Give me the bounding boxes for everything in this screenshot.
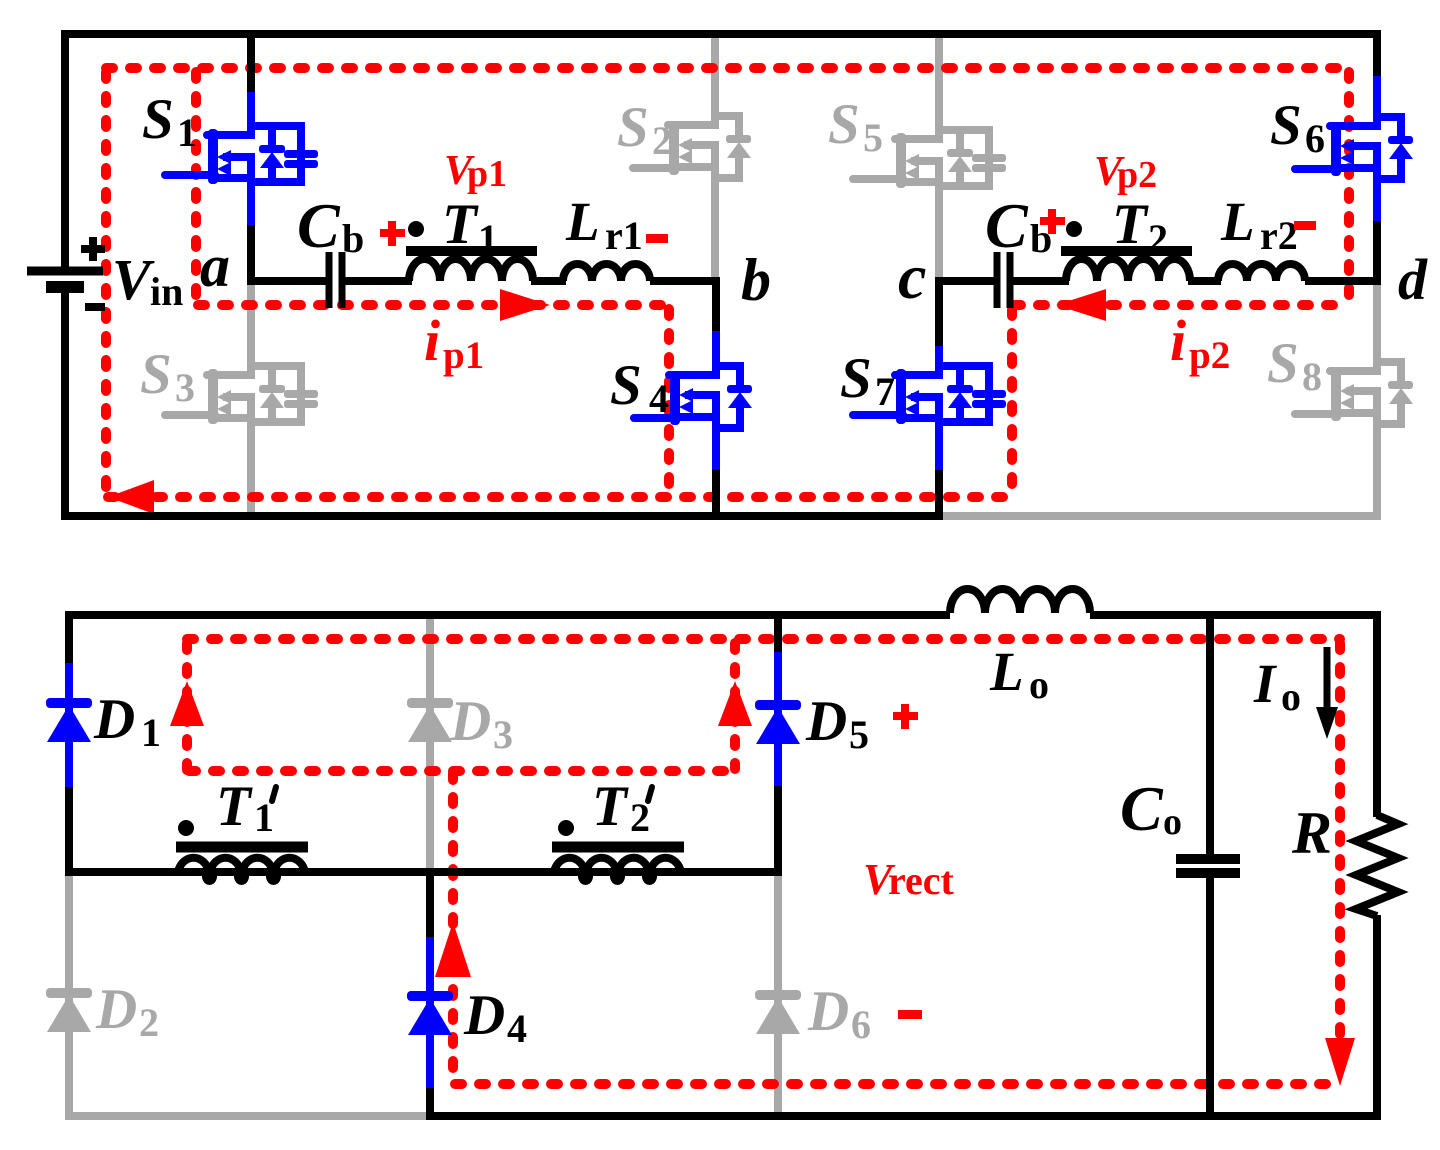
svg-text:S: S bbox=[617, 96, 649, 159]
inductor Lr2 bbox=[1218, 264, 1305, 281]
MOSFET S6 (blue) bbox=[1295, 117, 1413, 179]
svg-text:o: o bbox=[1281, 674, 1301, 719]
wire D5 leg upper (black) bbox=[774, 611, 782, 656]
wire: red dashed vertical below node b bbox=[664, 309, 674, 495]
wire S1 leg top (black) bbox=[247, 30, 255, 96]
wire bottom bus left (gray) bbox=[65, 1112, 434, 1120]
wire: red dashed vertical below S7 bbox=[1007, 309, 1017, 495]
MOSFET S3 (gray) bbox=[165, 366, 318, 424]
diode D6 (gray) bbox=[755, 990, 801, 1034]
svg-text:D: D bbox=[95, 978, 137, 1041]
MOSFET S1 (blue) bbox=[165, 126, 318, 184]
wire S7 leg (blue) bbox=[935, 346, 943, 470]
wire: red dashed right vertical through S6 bbox=[1344, 72, 1354, 301]
battery plus sign bbox=[81, 237, 105, 261]
svg-text:L: L bbox=[1220, 191, 1255, 252]
wire: red dashed ip2 horizontal bbox=[1014, 300, 1349, 310]
diode D4 (blue) bbox=[407, 991, 453, 1035]
wire: red dashed top horizontal (bottom section) bbox=[187, 634, 1340, 644]
transformer T1' polarity dot bbox=[178, 820, 194, 836]
plus sign vp1 bbox=[380, 221, 405, 246]
svg-text:S: S bbox=[828, 93, 860, 156]
wire top bus bbox=[61, 30, 1381, 38]
battery minus sign bbox=[85, 303, 105, 311]
wire D4 leg lower (black) bbox=[426, 1085, 434, 1120]
svg-text:1: 1 bbox=[478, 216, 498, 261]
capacitor Co plates bbox=[1176, 859, 1240, 873]
wire Cb1 to T1 bbox=[343, 277, 412, 285]
wire: red dashed top horizontal (top section) bbox=[106, 63, 1349, 73]
wire S4 leg (blue) bbox=[712, 331, 720, 469]
wire bottom bus left (black) bbox=[61, 512, 943, 520]
wire: red dashed bottom horizontal (top section) bbox=[108, 492, 1012, 502]
wire Lr1 to node b bbox=[650, 277, 720, 285]
wire D4 leg (blue) bbox=[426, 937, 434, 1088]
wire node c to Cb2 bbox=[935, 277, 994, 285]
wire right edge below R bbox=[1373, 915, 1381, 1120]
svg-text:D: D bbox=[449, 690, 491, 753]
arrow: up arrow through D1 path bbox=[170, 681, 204, 726]
wire bottom bus right (black) bbox=[426, 1112, 1381, 1120]
wire S4 source to bottom bus bbox=[712, 466, 720, 520]
wire D1 leg (blue) bbox=[65, 663, 73, 787]
battery Vin bottom plate bbox=[46, 281, 84, 293]
wire Co leg lower bbox=[1206, 878, 1214, 1120]
svg-text:C: C bbox=[1120, 773, 1164, 844]
svg-text:p2: p2 bbox=[1117, 154, 1157, 196]
wire: red dashed vertical through S1 bbox=[191, 72, 201, 303]
svg-text:T: T bbox=[1112, 193, 1149, 256]
wire T2 to Lr2 bbox=[1188, 277, 1221, 285]
wire node a to Cb1 bbox=[247, 277, 326, 285]
MOSFET S7 (blue) bbox=[853, 366, 1006, 424]
svg-text:rect: rect bbox=[888, 858, 955, 903]
wire bottom bus right (gray) bbox=[939, 512, 1381, 520]
svg-text:D: D bbox=[463, 984, 505, 1047]
MOSFET S2 (gray) bbox=[633, 116, 751, 178]
transformer T1' core bar bbox=[176, 842, 308, 853]
svg-text:C: C bbox=[985, 190, 1029, 261]
svg-text:5: 5 bbox=[863, 115, 883, 160]
wire Cb2 to T2 bbox=[1011, 277, 1069, 285]
svg-text:6: 6 bbox=[851, 1002, 871, 1047]
transformer T1 polarity dot bbox=[408, 221, 424, 237]
svg-text:S: S bbox=[140, 343, 172, 406]
svg-text:S: S bbox=[610, 354, 642, 417]
wire D2 leg (gray) bbox=[65, 868, 73, 1116]
transformer T2 core bar bbox=[1061, 246, 1192, 256]
MOSFET S8 (gray) bbox=[1295, 362, 1413, 424]
wire S7 source to bottom bus bbox=[935, 467, 943, 520]
svg-text:4: 4 bbox=[507, 1006, 527, 1051]
svg-text:c: c bbox=[898, 241, 926, 312]
arrow: return current arrow (left, bottom of top section) bbox=[108, 480, 154, 514]
wire: red dashed mid horizontal (bottom section) bbox=[189, 766, 735, 776]
svg-text:S: S bbox=[142, 88, 174, 151]
minus sign vp1 bbox=[646, 234, 668, 243]
wire S2 leg (gray, top bus to node b) bbox=[711, 34, 719, 279]
svg-text:S: S bbox=[1267, 332, 1299, 395]
svg-text:5: 5 bbox=[849, 712, 869, 757]
capacitor Cb1 plates bbox=[329, 252, 342, 308]
svg-text:2: 2 bbox=[1148, 216, 1168, 261]
wire bottom-section top bus left of Lo bbox=[65, 611, 950, 619]
transformer T1 core bar bbox=[406, 246, 537, 256]
svg-text:p1: p1 bbox=[467, 153, 507, 195]
svg-text:T: T bbox=[592, 775, 629, 838]
svg-text:4: 4 bbox=[649, 376, 669, 421]
svg-text:i: i bbox=[424, 308, 440, 373]
capacitor Cb2 plates bbox=[997, 252, 1010, 308]
svg-text:r1: r1 bbox=[605, 213, 643, 258]
wire: red dashed vertical above D1 bbox=[182, 643, 192, 771]
svg-text:S: S bbox=[1270, 94, 1302, 157]
inductor Lo bbox=[950, 589, 1090, 613]
wire: red dashed vertical above D5 bbox=[730, 643, 740, 769]
minus sign vp2 bbox=[1294, 221, 1316, 230]
plus sign Vrect bbox=[893, 704, 918, 729]
svg-text:d: d bbox=[1398, 247, 1428, 312]
plus sign vp2 bbox=[1040, 209, 1065, 234]
svg-text:L: L bbox=[989, 641, 1024, 702]
diode D3 (gray) bbox=[407, 698, 453, 742]
wire left edge above D1 bbox=[65, 611, 73, 667]
diode D2 (gray) bbox=[46, 988, 92, 1032]
wire left edge above battery bbox=[61, 30, 69, 267]
wire D4 leg upper (black) bbox=[426, 868, 434, 941]
svg-text:L: L bbox=[565, 191, 600, 252]
svg-text:i: i bbox=[1170, 308, 1186, 373]
wire Lr2 to node d bbox=[1305, 277, 1381, 285]
wire: red dashed right vertical through load bbox=[1335, 643, 1345, 1040]
svg-text:8: 8 bbox=[1302, 354, 1322, 399]
transformer T2 polarity dot bbox=[1066, 221, 1082, 237]
svg-text:7: 7 bbox=[875, 369, 895, 414]
wire S3 leg (gray, node a to bottom bus) bbox=[247, 283, 255, 516]
wire secondary mid bus bbox=[65, 868, 778, 876]
arrow: up arrow through D5 path bbox=[718, 681, 752, 726]
transformer T2' core bar bbox=[552, 842, 684, 853]
svg-text:C: C bbox=[297, 190, 341, 261]
svg-text:b: b bbox=[741, 247, 771, 313]
svg-text:1: 1 bbox=[141, 710, 161, 755]
arrow: down arrow at load bbox=[1325, 1038, 1355, 1086]
wire node c down to S7 bbox=[935, 277, 943, 349]
svg-text:D: D bbox=[805, 690, 847, 753]
arrow Io (output current) bbox=[1324, 647, 1331, 709]
svg-text:V: V bbox=[112, 247, 155, 312]
wire S6 leg (blue) bbox=[1373, 76, 1381, 221]
minus sign Vrect bbox=[898, 1010, 922, 1019]
wire D6 leg (gray) bbox=[774, 868, 782, 1116]
svg-text:o: o bbox=[1163, 801, 1182, 843]
svg-text:S: S bbox=[840, 347, 872, 410]
wire right edge above R bbox=[1373, 611, 1381, 817]
svg-text:2: 2 bbox=[652, 118, 672, 163]
MOSFET S5 (gray) bbox=[853, 130, 1006, 188]
wire Co leg upper bbox=[1206, 611, 1214, 854]
svg-text:D: D bbox=[807, 980, 849, 1043]
diode D5 (blue) bbox=[755, 700, 801, 744]
wire S6 source to node d bbox=[1373, 218, 1381, 285]
wire D3 leg (gray) bbox=[426, 611, 434, 876]
wire bottom-section top bus right of Lo bbox=[1090, 611, 1381, 619]
svg-text:o: o bbox=[1029, 662, 1049, 707]
svg-text:2: 2 bbox=[139, 1000, 159, 1045]
inductor Lr1 bbox=[563, 264, 650, 281]
svg-text:D: D bbox=[93, 688, 135, 751]
svg-text:r2: r2 bbox=[1260, 213, 1298, 258]
wire S1 leg (blue) bbox=[247, 92, 255, 225]
svg-text:1: 1 bbox=[177, 110, 197, 155]
MOSFET S4 (blue) bbox=[634, 366, 752, 428]
transformer T2 primary winding bbox=[1066, 259, 1190, 281]
transformer T2' polarity dot bbox=[558, 820, 574, 836]
svg-text:3: 3 bbox=[175, 365, 195, 410]
wire D1 to mid bus bbox=[65, 784, 73, 876]
wire D5 leg (blue) bbox=[774, 652, 782, 786]
battery Vin top plate bbox=[27, 267, 103, 276]
svg-text:T: T bbox=[216, 775, 253, 838]
arrow: up arrow through D4 path bbox=[435, 922, 471, 977]
wire S5 leg (gray, top bus to node c) bbox=[935, 34, 943, 279]
svg-text:3: 3 bbox=[493, 712, 513, 757]
wire: red dashed bottom horizontal (bottom section) bbox=[455, 1079, 1340, 1089]
svg-text:T: T bbox=[442, 193, 479, 256]
svg-text:a: a bbox=[200, 233, 230, 299]
svg-text:in: in bbox=[150, 269, 183, 314]
svg-text:I: I bbox=[1253, 653, 1277, 714]
resistor R zigzag bbox=[1356, 815, 1398, 916]
arrow: ip1 current arrow (right) bbox=[500, 289, 550, 321]
wire node b down to S4 bbox=[712, 277, 720, 334]
wire: red dashed vertical through D4 bbox=[448, 773, 458, 1084]
wire D5 to mid bus bbox=[774, 783, 782, 876]
wire left edge below battery bbox=[61, 291, 69, 520]
diode D1 (blue) bbox=[46, 698, 92, 742]
svg-text:p1: p1 bbox=[443, 334, 484, 377]
svg-text:6: 6 bbox=[1305, 116, 1325, 161]
arrow: ip2 current arrow (left) bbox=[1056, 289, 1106, 321]
wire: red dashed ip1 horizontal bbox=[198, 300, 669, 310]
wire: red dashed left vertical at battery bbox=[101, 72, 111, 497]
transformer T1 primary winding bbox=[409, 259, 533, 281]
svg-text:R: R bbox=[1291, 800, 1332, 866]
wire S8 leg (gray, node d to bottom bus) bbox=[1373, 283, 1381, 516]
transformer T1' secondary winding bbox=[178, 858, 305, 881]
wire T1 to Lr1 bbox=[531, 277, 566, 285]
wire S1 source to node a bbox=[247, 221, 255, 285]
svg-text:p2: p2 bbox=[1189, 334, 1230, 377]
svg-text:b: b bbox=[342, 216, 364, 261]
transformer T2' secondary winding bbox=[554, 858, 681, 881]
wire right edge above S6 bbox=[1373, 30, 1381, 80]
